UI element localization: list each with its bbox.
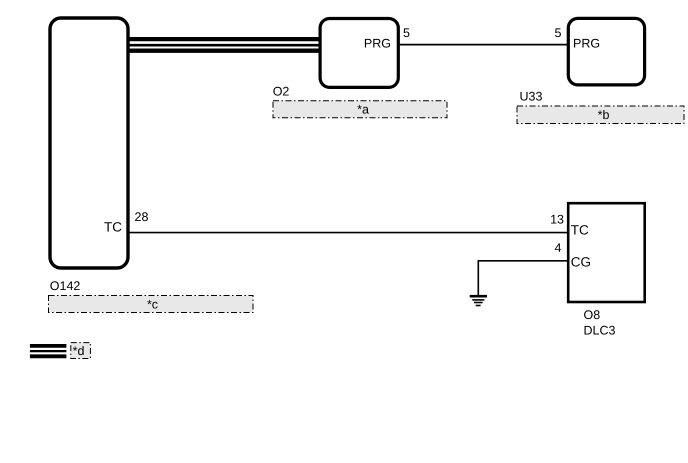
part code box *b <box>517 106 684 124</box>
svg-text:4: 4 <box>555 241 562 255</box>
svg-text:5: 5 <box>403 26 410 40</box>
svg-text:U33: U33 <box>520 89 543 103</box>
svg-text:CG: CG <box>571 255 591 270</box>
svg-text:*a: *a <box>357 103 369 117</box>
svg-text:5: 5 <box>555 26 562 40</box>
part code box *d <box>71 343 91 359</box>
svg-text:O2: O2 <box>273 85 290 99</box>
connector O8 DLC3 box <box>568 203 645 302</box>
svg-text:DLC3: DLC3 <box>584 324 616 338</box>
wire from O2 pin 5 to U33 pin 5 <box>397 44 568 46</box>
svg-text:PRG: PRG <box>573 37 600 51</box>
svg-text:TC: TC <box>571 223 589 238</box>
svg-text:13: 13 <box>550 213 564 227</box>
svg-text:*d: *d <box>73 344 85 358</box>
wire CG from ground to DLC3 pin 4 <box>478 261 568 296</box>
svg-text:O8: O8 <box>584 308 601 322</box>
svg-text:28: 28 <box>135 210 149 224</box>
connector O142 <box>50 18 128 268</box>
ground symbol <box>470 296 487 305</box>
legend shielded wire symbol <box>30 346 67 356</box>
svg-text:TC: TC <box>104 219 122 234</box>
ECU O2 box <box>320 19 398 88</box>
svg-text:PRG: PRG <box>364 37 391 51</box>
shielded wire from O142 to O2 <box>128 39 320 51</box>
part code box *a <box>273 101 447 118</box>
ECU U33 box <box>568 18 644 85</box>
svg-text:*c: *c <box>147 298 158 312</box>
wire TC from O142 pin 28 to DLC3 pin 13 <box>128 232 568 234</box>
svg-text:*b: *b <box>598 108 610 122</box>
part code box *c <box>49 296 254 313</box>
svg-text:O142: O142 <box>50 279 81 293</box>
